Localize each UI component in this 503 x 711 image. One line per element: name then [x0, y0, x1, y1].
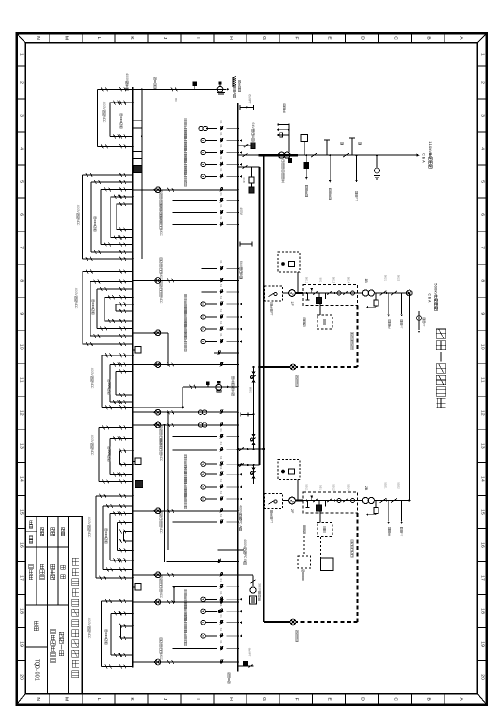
main title: dianqi yici jiexian tu: [436, 329, 445, 338]
svg-text:4: 4: [19, 479, 25, 482]
svg-text:T: T: [400, 534, 404, 536]
generator unit 1F excitation dashed box: [278, 252, 300, 272]
svg-text:M: M: [63, 36, 69, 40]
feeder loop cluster 3 on left bus: [82, 272, 84, 345]
svg-text:2: 2: [19, 413, 25, 416]
auxiliary branch vertical x=253.5 with breakers: [253, 367, 255, 449]
svg-text:V: V: [434, 292, 439, 295]
title block company column divider: [68, 517, 70, 694]
right bus PT drawer top: [240, 106, 254, 108]
svg-text:T: T: [248, 102, 252, 104]
unit 2F synchronizing box below: [319, 511, 321, 522]
110kV line down stub 306 fuse: [305, 155, 307, 177]
title block outline: [25, 517, 82, 694]
right bus PT drawer 244: [240, 243, 252, 245]
svg-text:5: 5: [19, 512, 25, 515]
500kV tie vertical: [408, 293, 410, 501]
svg-text:8: 8: [479, 279, 485, 282]
unit 1F enclosed busduct dashed path: [356, 306, 358, 367]
svg-text:1: 1: [19, 53, 25, 56]
generator 1F circle: [289, 290, 296, 297]
generator unit 2F excitation dashed box: [278, 460, 300, 480]
title block grid lines: [25, 604, 68, 606]
svg-text:7: 7: [19, 578, 25, 581]
svg-text:6: 6: [479, 545, 485, 548]
generator 1F leads: [282, 292, 288, 294]
500kV PT stub: [418, 311, 420, 330]
svg-text:L: L: [96, 37, 102, 40]
svg-text:8: 8: [479, 611, 485, 614]
unit 1 solid thick link: [260, 366, 291, 368]
transformer tie row 424.9: [133, 424, 238, 426]
svg-text:9: 9: [479, 644, 485, 647]
svg-text:0: 0: [479, 677, 485, 680]
110kV line up stub 327: [326, 140, 328, 155]
svg-text:D: D: [359, 36, 365, 40]
left bus PT stub boxes: [133, 349, 135, 351]
backup feed label above mini bus: [283, 104, 285, 106]
tie row 662.0: [133, 661, 238, 663]
tie row 602.0: [133, 601, 238, 603]
row 353 short breaker row: [214, 352, 238, 354]
main transformer 1B: [358, 292, 363, 294]
right bus PT drawer bottom: [238, 665, 254, 667]
svg-text:5: 5: [479, 180, 485, 183]
title block company name: [72, 558, 79, 565]
svg-text:9: 9: [19, 644, 25, 647]
disconnect switch on 110kV line: [311, 153, 317, 157]
feeder loop cluster 2 on left bus: [81, 175, 83, 259]
tie row 510.8: [133, 510, 238, 512]
unit 2F enclosed busduct dashed path: [356, 513, 358, 622]
right bus feeder rows group D: [173, 586, 218, 588]
svg-text:0: 0: [19, 677, 25, 680]
svg-text:7: 7: [479, 246, 485, 249]
disconnect switch 346: [343, 153, 349, 157]
svg-text:H: H: [228, 36, 234, 40]
svg-text:3: 3: [479, 446, 485, 449]
svg-text:N: N: [35, 697, 41, 701]
svg-text:T: T: [400, 327, 404, 329]
svg-text:T: T: [270, 521, 274, 523]
svg-text:4: 4: [479, 147, 485, 150]
svg-text:F: F: [294, 36, 300, 39]
left bus junction squares: [134, 166, 142, 173]
junction dots 110kV line: [261, 154, 263, 156]
feeder loop cluster 6 on left bus: [95, 496, 97, 578]
row 167 to thick feeder B: [238, 166, 260, 168]
corner diagonal top-right: [477, 33, 486, 43]
cable sealing circle unit 1F: [290, 364, 296, 370]
backup mini bus stubs: [278, 124, 289, 126]
svg-text:6: 6: [19, 213, 25, 216]
svg-text:5: 5: [19, 180, 25, 183]
svg-text:T: T: [248, 655, 252, 657]
corner diagonal top-left: [17, 33, 26, 43]
black box right of startup transformer: [288, 158, 291, 162]
svg-text:C: C: [422, 153, 426, 156]
svg-text:3: 3: [19, 114, 25, 117]
feeder loop cluster 4 on left bus: [101, 355, 103, 407]
110kV line down stub 356: [356, 155, 358, 180]
unit 1F synchronizing box below: [319, 304, 321, 315]
svg-text:2: 2: [479, 413, 485, 416]
transformer tie row 412.2: [133, 411, 238, 413]
cross links between left bus pair: [133, 120, 142, 122]
generator breaker dashed enclosure 2F: [303, 492, 358, 513]
svg-text:T: T: [355, 199, 359, 201]
svg-text:M: M: [63, 697, 69, 701]
svg-text:C: C: [392, 697, 398, 701]
second parallel vertical right of left bus: [141, 89, 143, 258]
svg-text:4: 4: [19, 147, 25, 150]
ground hatch bar top right: [232, 77, 234, 87]
right bus feeder rows group C: [173, 436, 218, 438]
generator unit 2F PT dashed box: [265, 493, 283, 508]
110kV line PT with ground 377: [376, 155, 378, 168]
svg-text:1: 1: [19, 380, 25, 383]
svg-text:4: 4: [479, 479, 485, 482]
vertical link row 332.8 to 364.6: [167, 333, 169, 365]
svg-text:N: N: [35, 36, 41, 40]
110kV supply line: [238, 154, 258, 156]
note text below bus bottom: [228, 673, 230, 675]
vertical link to startup transformer: [288, 125, 290, 153]
tie row 574.8: [133, 574, 238, 576]
cable sealing circle unit 2F: [290, 619, 296, 625]
svg-text:L: L: [96, 698, 102, 701]
feeder A link row 449.1: [238, 448, 264, 450]
svg-text:H: H: [228, 697, 234, 701]
right bus feeder rows group B: [202, 268, 218, 270]
svg-text:7: 7: [19, 246, 25, 249]
thick vertical feeder A x=263.8: [263, 155, 265, 622]
PT drawer stub at 412: [240, 412, 242, 416]
short tie row 332.8: [133, 332, 168, 334]
svg-text:8: 8: [19, 611, 25, 614]
110kV line up stub 352: [351, 138, 353, 155]
feeder loop cluster 7 on left bus: [101, 601, 103, 667]
svg-text:1: 1: [33, 678, 39, 681]
tie row 280.5: [133, 280, 238, 282]
feeder loop cluster 1 on left bus: [97, 89, 99, 146]
unit 2 solid thick link: [264, 621, 290, 623]
generator 2F circle: [289, 497, 296, 504]
svg-text:1: 1: [479, 53, 485, 56]
svg-text:2: 2: [19, 81, 25, 84]
thick vertical feeder B x=259.5: [259, 167, 261, 465]
svg-text:B: B: [242, 181, 246, 183]
110kV line up stub 304 with box: [303, 142, 305, 156]
arrester stub below row 167: [251, 167, 253, 177]
title block drawing title: [59, 632, 64, 637]
feeder B bottom link row 465: [238, 464, 260, 466]
generator unit 1F PT dashed box: [265, 286, 283, 301]
bus: left 400V distribution bus: [132, 87, 134, 668]
svg-text:6: 6: [19, 545, 25, 548]
diesel generator symbol row 386.8: [216, 384, 222, 390]
startup transformer two circles: [278, 152, 284, 158]
unit 2F HV lead with switches: [374, 500, 409, 502]
mid vertical links to lower sections: [167, 412, 169, 550]
corner diagonal bottom-left: [17, 694, 26, 705]
diesel generator feeder row 386.8: [183, 386, 238, 388]
svg-text:9: 9: [19, 312, 25, 315]
svg-text:0: 0: [19, 347, 25, 350]
tie row 189.8 between buses with cable seal: [133, 189, 238, 191]
title block drawing number label: [34, 621, 38, 625]
svg-text:7: 7: [479, 578, 485, 581]
title block names: [61, 565, 65, 569]
svg-text:I: I: [195, 698, 201, 699]
svg-text:T: T: [270, 314, 274, 316]
row 550.1 cross stub: [218, 549, 245, 551]
svg-text:T: T: [422, 325, 426, 327]
svg-text:F: F: [294, 698, 300, 701]
main transformer 2B: [358, 500, 363, 502]
svg-text:I: I: [195, 37, 201, 38]
vertical link 586.7 to 602: [173, 587, 175, 602]
svg-text:G: G: [261, 36, 267, 40]
right bus feeder rows group A: [206, 128, 217, 130]
unit 2 auxiliary boxes below: [319, 537, 321, 558]
bus: 6kV/400V main distribution bus right: [237, 103, 239, 672]
corner diagonal bottom-right: [477, 694, 486, 705]
row 561.4 from mid verticals: [167, 560, 238, 562]
svg-text:V: V: [428, 150, 433, 153]
generator breaker dashed enclosure 1F: [303, 284, 358, 305]
svg-text:6: 6: [479, 213, 485, 216]
svg-text:G: G: [261, 697, 267, 701]
svg-text:9: 9: [479, 312, 485, 315]
110kV line down stub 330: [329, 155, 331, 180]
title block role labels: [61, 528, 65, 532]
station service transformer at bus right: [238, 574, 253, 576]
svg-text:C: C: [392, 36, 398, 40]
svg-text:8: 8: [19, 279, 25, 282]
tie row 364.6: [133, 364, 238, 366]
lower breaker below row 465: [253, 465, 255, 484]
diesel generator symbol top: [217, 86, 223, 92]
feeder loop cluster 5 on left bus: [98, 427, 100, 481]
top emergency row 89.3: [98, 88, 227, 90]
right bus arrester stub 145.7: [238, 145, 254, 147]
svg-text:1: 1: [479, 380, 485, 383]
svg-text:3: 3: [19, 446, 25, 449]
svg-text:3: 3: [479, 114, 485, 117]
generator 2F leads: [282, 500, 288, 502]
svg-text:0: 0: [479, 347, 485, 350]
svg-text:2: 2: [479, 81, 485, 84]
switch label glyphs above line: [341, 142, 344, 145]
svg-text:D: D: [359, 697, 365, 701]
svg-text:5: 5: [479, 512, 485, 515]
unit 1F HV lead with switches: [374, 292, 409, 294]
